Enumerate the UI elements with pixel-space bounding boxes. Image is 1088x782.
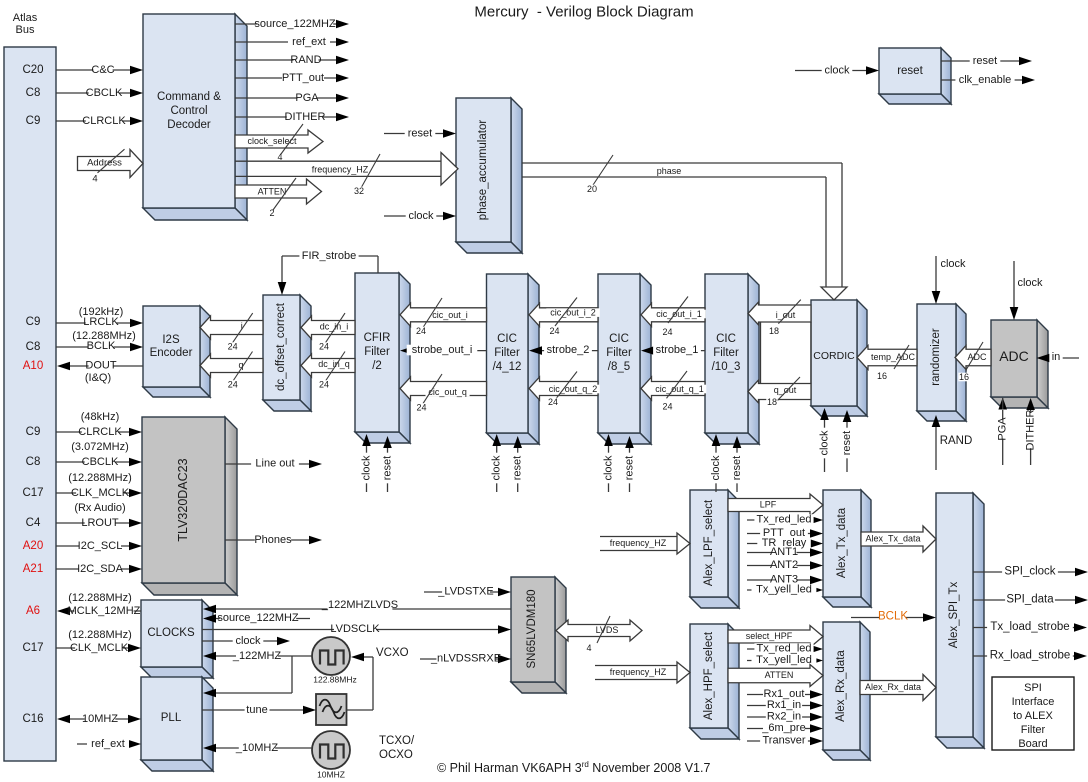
wire reset into CIC/10_3 <box>736 445 738 492</box>
bus i 24 dc_offset_correct to I2S Encoder <box>200 316 263 339</box>
wire clock into phase_accumulator <box>384 215 444 217</box>
svg-text:TCXO/: TCXO/ <box>379 735 415 747</box>
svg-text:clock_select: clock_select <box>247 136 297 146</box>
svg-text:C20: C20 <box>22 64 43 76</box>
svg-text:cic_out_q_1: cic_out_q_1 <box>655 384 704 394</box>
svg-text:LRCLK: LRCLK <box>83 316 119 328</box>
bus phase 20 phase_accumulator to CORDIC <box>522 162 842 164</box>
svg-text:reset: reset <box>512 456 524 480</box>
block U20 Alex_Rx_data <box>860 622 870 760</box>
svg-text:Alex_Rx_data: Alex_Rx_data <box>865 682 921 692</box>
svg-text:clock: clock <box>824 65 850 77</box>
svg-text:C8: C8 <box>26 87 41 99</box>
bus Address 4 into decoder <box>78 150 144 178</box>
svg-text:4: 4 <box>92 174 97 185</box>
svg-text:RAND: RAND <box>290 54 321 66</box>
svg-text:C8: C8 <box>26 456 41 468</box>
wire Rx1_out into Alex_Rx_data <box>747 694 811 696</box>
svg-text:Control: Control <box>170 105 207 117</box>
wire BCLK into Alex_SPI_Tx <box>851 617 923 619</box>
wire Tx_load_strobe output <box>973 627 1074 629</box>
wire Tx_red_led into Alex_Rx_data <box>747 648 811 650</box>
wire Transver into Alex_Rx_data <box>747 740 811 742</box>
svg-text:24: 24 <box>319 342 329 352</box>
svg-text:reset: reset <box>897 65 923 77</box>
bus frequency_HZ 32 decoder to phase_accumulator <box>235 160 441 162</box>
svg-text:temp_ADC: temp_ADC <box>871 352 916 362</box>
svg-text:reset: reset <box>841 431 853 455</box>
wire FIR_strobe from CFIR to dc_offset_correct <box>377 256 379 273</box>
svg-text:LVDSCLK: LVDSCLK <box>330 623 380 635</box>
svg-text:LROUT: LROUT <box>81 517 119 529</box>
svg-text:dc_offset_correct: dc_offset_correct <box>275 302 287 391</box>
svg-text:Interface: Interface <box>1012 696 1055 708</box>
svg-text:LVDS: LVDS <box>596 625 619 635</box>
svg-text:cic_out_i: cic_out_i <box>432 310 468 320</box>
wire strobe_out_i CIC/4_12 to CFIR <box>411 350 487 352</box>
svg-text:24: 24 <box>662 402 672 412</box>
svg-text:24: 24 <box>228 342 238 352</box>
svg-text:Alex_Rx_data: Alex_Rx_data <box>835 650 847 722</box>
block U18 Alex_Tx_data <box>861 490 871 607</box>
svg-text:I2C_SDA: I2C_SDA <box>77 563 124 575</box>
svg-text:Tx_yell_led: Tx_yell_led <box>756 654 812 666</box>
svg-text:clock: clock <box>491 455 503 481</box>
block U21 Alex_SPI_Tx <box>973 493 984 748</box>
svg-text:Filter: Filter <box>606 347 632 359</box>
svg-text:Board: Board <box>1018 738 1047 750</box>
svg-text:clock: clock <box>408 210 434 222</box>
svg-text:DOUT: DOUT <box>85 360 116 372</box>
oscillator Y2 TCXO/OCXO 10MHz <box>312 731 350 769</box>
wire SPI_clock output <box>973 571 1075 573</box>
wire _122MHZ from VCXO to CLOCKS and PLL <box>215 655 312 657</box>
svg-text:to ALEX: to ALEX <box>1013 710 1053 722</box>
svg-text:24: 24 <box>549 326 559 336</box>
svg-text:TLV320DAC23: TLV320DAC23 <box>176 458 190 541</box>
svg-text:Filter: Filter <box>1021 724 1046 736</box>
wire clock into CIC/4_12 <box>496 443 498 492</box>
wire Rx2_in into Alex_Rx_data <box>747 716 811 718</box>
wire PGA decoder output <box>235 97 336 99</box>
wire PTT_out decoder output <box>235 77 336 79</box>
svg-text:ANT2: ANT2 <box>770 559 798 571</box>
svg-text:CORDIC: CORDIC <box>813 350 855 362</box>
svg-text:BCLK: BCLK <box>87 340 116 352</box>
svg-text:clk_enable: clk_enable <box>959 74 1012 86</box>
svg-text:ATTEN: ATTEN <box>258 187 287 197</box>
wire clock into CFIR <box>366 443 368 492</box>
wire reset into phase_accumulator <box>384 133 444 135</box>
wire reset into CIC/8_5 <box>629 445 631 492</box>
svg-text:(12.288MHz): (12.288MHz) <box>68 629 132 641</box>
bus Alex_Rx_data to Alex_SPI_Tx <box>860 675 936 701</box>
bus Alex_Tx_data to Alex_SPI_Tx <box>861 526 936 552</box>
wire strobe_2 CIC/8_5 to CIC/4_12 <box>540 350 598 352</box>
svg-text:PGA: PGA <box>997 417 1009 441</box>
Atlas Bus connector strip <box>4 47 56 761</box>
wire loop filter to VCXO <box>346 709 373 711</box>
svg-text:CLOCKS: CLOCKS <box>147 627 195 639</box>
svg-text:source_122MHZ: source_122MHZ <box>217 612 299 624</box>
block U6 CFIR Filter /2 <box>399 273 410 443</box>
svg-text:clock: clock <box>235 635 261 647</box>
svg-text:DITHER: DITHER <box>285 111 326 123</box>
svg-text:Transver: Transver <box>763 735 806 747</box>
bus ATTEN 2 decoder output <box>235 179 322 204</box>
svg-text:ADC: ADC <box>999 348 1029 364</box>
block U8 CIC Filter /8_5 <box>640 274 651 444</box>
svg-text:Rx2_in: Rx2_in <box>767 711 801 723</box>
svg-text:CLRCLK: CLRCLK <box>78 426 122 438</box>
block U9 CIC Filter /10_3 <box>748 274 759 444</box>
svg-text:Filter: Filter <box>364 346 390 358</box>
svg-text:Alex_Tx_data: Alex_Tx_data <box>865 534 920 544</box>
svg-text:Tx_red_led: Tx_red_led <box>756 514 811 526</box>
svg-text:122.88MHz: 122.88MHz <box>313 675 356 685</box>
svg-text:BCLK: BCLK <box>878 611 908 623</box>
svg-text:ref_ext: ref_ext <box>91 738 125 750</box>
svg-text:source_122MHZ: source_122MHZ <box>254 18 336 30</box>
svg-text:Decoder: Decoder <box>167 119 211 131</box>
svg-text:Command &: Command & <box>157 91 221 103</box>
svg-text:A21: A21 <box>23 563 43 575</box>
block U1 Command &amp; Control Decoder <box>235 14 247 220</box>
bus clock_select 4 decoder output <box>235 130 323 153</box>
svg-text:Rx1_in: Rx1_in <box>767 699 801 711</box>
svg-text:_6m_pre: _6m_pre <box>761 722 805 734</box>
svg-text:10MHZ: 10MHZ <box>317 770 345 780</box>
svg-text:strobe_2: strobe_2 <box>547 344 590 356</box>
wire Tx_yell_led into Alex_Rx_data <box>747 660 811 662</box>
svg-text:(I&Q): (I&Q) <box>85 372 111 384</box>
wire ANT3 into Alex_Tx_data <box>747 579 811 581</box>
bus ADC 16 from ADC to randomizer <box>955 346 991 370</box>
svg-text:24: 24 <box>416 326 426 336</box>
wire RAND decoder output <box>235 59 336 61</box>
wire clock into randomizer <box>935 256 937 295</box>
wire Tx_red_led into Alex_Tx_data <box>747 519 811 521</box>
svg-text:clock: clock <box>819 430 831 456</box>
svg-text:CBCLK: CBCLK <box>86 87 123 99</box>
oscillator Y1 VCXO 122.88MHz <box>312 637 350 675</box>
svg-text:phase: phase <box>657 166 682 176</box>
svg-text:/10_3: /10_3 <box>712 361 741 373</box>
svg-text:C4: C4 <box>26 517 41 529</box>
wire LVDSCLK from CLOCKS to SN65LVDM180 <box>202 629 499 631</box>
bus cic_out_i 24 CIC/4_12 to CFIR <box>400 303 487 326</box>
svg-text:Alex_Tx_data: Alex_Tx_data <box>836 507 848 578</box>
wire Rx1_in into Alex_Rx_data <box>747 705 811 707</box>
bus frequency_HZ into Alex_LPF_select <box>600 536 677 538</box>
svg-text:24: 24 <box>228 380 238 390</box>
svg-text:C16: C16 <box>22 713 43 725</box>
svg-text:C8: C8 <box>26 341 41 353</box>
block U10 CORDIC <box>857 300 867 416</box>
svg-text:ATTEN: ATTEN <box>765 670 794 680</box>
wire _6m_pre into Alex_Rx_data <box>747 728 811 730</box>
svg-text:cic_out_i_1: cic_out_i_1 <box>656 309 702 319</box>
svg-text:C9: C9 <box>26 316 41 328</box>
svg-text:strobe_1: strobe_1 <box>656 344 699 356</box>
svg-text:I2C_SCL: I2C_SCL <box>78 540 123 552</box>
svg-text:reset: reset <box>408 128 432 140</box>
block U4 I2S Encoder <box>200 306 210 397</box>
bus q 24 dc_offset_correct to I2S Encoder <box>200 354 263 377</box>
wire clock into CIC/10_3 <box>715 443 717 492</box>
svg-text:24: 24 <box>319 380 329 390</box>
svg-text:reset: reset <box>382 456 394 480</box>
wire Rx_load_strobe output <box>973 655 1074 657</box>
wire source_122MHZ into CLOCKS <box>215 618 310 620</box>
wire ref_ext into PLL <box>77 743 129 745</box>
svg-text:Bus: Bus <box>16 24 35 36</box>
svg-text:Phones: Phones <box>254 534 292 546</box>
svg-text:2: 2 <box>269 208 274 218</box>
svg-text:18: 18 <box>769 326 779 336</box>
wire DITHER decoder output <box>235 116 336 118</box>
wire ANT2 into Alex_Tx_data <box>747 565 811 567</box>
wire clock into ADC <box>1013 261 1015 311</box>
svg-text:A10: A10 <box>23 360 43 372</box>
svg-text:LPF: LPF <box>760 500 777 510</box>
bus cic_out_q 24 CIC/4_12 to CFIR <box>400 377 487 400</box>
bus cic_out_i_2 24 CIC/8_5 to CIC/4_12 <box>529 303 598 326</box>
svg-text:© Phil Harman VK6APH 3rd Novem: © Phil Harman VK6APH 3rd November 2008 V… <box>437 760 710 776</box>
svg-text:cic_out_q_2: cic_out_q_2 <box>549 384 598 394</box>
svg-text:Tx_red_led: Tx_red_led <box>756 643 811 655</box>
wire ANT1 into Alex_Tx_data <box>747 552 811 554</box>
wire reset into CFIR <box>387 445 389 492</box>
svg-text:(3.072MHz): (3.072MHz) <box>71 441 128 453</box>
svg-text:clock: clock <box>1017 277 1043 289</box>
svg-text:reset: reset <box>624 456 636 480</box>
svg-text:_10MHZ: _10MHZ <box>235 742 278 754</box>
wire RAND into randomizer <box>935 424 937 470</box>
wire clock into CORDIC <box>824 417 826 472</box>
svg-text:10MHZ: 10MHZ <box>82 713 118 725</box>
svg-text:SPI_clock: SPI_clock <box>1004 566 1055 578</box>
svg-text:select_HPF: select_HPF <box>746 631 793 641</box>
svg-text:FIR_strobe: FIR_strobe <box>302 250 356 262</box>
wire PGA into ADC <box>1002 410 1004 465</box>
wire TR relay into Alex_Tx_data <box>747 543 811 545</box>
wire PTT out into Alex_Tx_data <box>747 533 811 535</box>
svg-text:I2S: I2S <box>162 334 180 346</box>
svg-text:/8_5: /8_5 <box>608 361 630 373</box>
wire ref_ext decoder output <box>235 41 336 43</box>
svg-text:A6: A6 <box>26 605 40 617</box>
svg-text:randomizer: randomizer <box>930 328 942 386</box>
block U15 PLL <box>202 677 213 771</box>
svg-text:32: 32 <box>354 186 364 196</box>
svg-text:in: in <box>1052 351 1061 363</box>
bus dc_in_i 24 CFIR to dc_offset_correct <box>301 316 355 339</box>
svg-text:Line out: Line out <box>255 458 294 470</box>
svg-text:4: 4 <box>586 643 591 653</box>
bus LVDS 4 bidirectional from SN65LVDM180 <box>556 620 642 641</box>
bus LPF Alex_LPF_select to Alex_Tx_data <box>728 494 823 516</box>
svg-text:C9: C9 <box>26 426 41 438</box>
wire reset into CIC/4_12 <box>517 445 519 492</box>
bus cic_out_i_1 24 CIC/10_3 to CIC/8_5 <box>641 303 705 326</box>
wire reset output of reset block <box>941 60 1019 62</box>
wire tune from PLL to loop filter <box>202 709 303 711</box>
svg-text:frequency_HZ: frequency_HZ <box>312 165 369 175</box>
wire clock into reset block <box>795 70 867 72</box>
svg-text:C17: C17 <box>22 642 43 654</box>
svg-text:CIC: CIC <box>609 333 629 345</box>
block U3 reset <box>941 48 951 104</box>
svg-text:tune: tune <box>246 704 267 716</box>
svg-text:Filter: Filter <box>713 347 739 359</box>
svg-text:cic_out_i_2: cic_out_i_2 <box>550 308 596 318</box>
svg-text:Alex_HPF_select: Alex_HPF_select <box>703 631 715 720</box>
bus q_out 18 CORDIC to CIC/10_3 <box>748 380 811 403</box>
wire _122MHZLVDS from SN65LVDM180 to CLOCKS <box>215 608 511 610</box>
svg-text:/4_12: /4_12 <box>493 361 522 373</box>
svg-text:CFIR: CFIR <box>364 332 391 344</box>
box SPI Interface to ALEX Filter Board <box>992 677 1074 750</box>
wire SPI_data output <box>973 599 1075 601</box>
wire clk_enable output of reset block <box>941 79 1022 81</box>
svg-text:(12.288MHz): (12.288MHz) <box>68 592 132 604</box>
svg-text:(Rx Audio): (Rx Audio) <box>74 502 125 514</box>
svg-text:phase_accumulator: phase_accumulator <box>477 120 489 221</box>
bus temp_ADC 16 randomizer to CORDIC <box>857 346 917 370</box>
wire strobe_1 CIC/10_3 to CIC/8_5 <box>652 350 705 352</box>
wire reset into CORDIC <box>846 419 848 472</box>
svg-text:Encoder: Encoder <box>150 347 193 359</box>
svg-text:CIC: CIC <box>716 333 736 345</box>
wire in into ADC <box>1049 357 1079 359</box>
svg-text:_122MHZLVDS: _122MHZLVDS <box>321 599 398 611</box>
wire _nLVDSSRXE into SN65LVDM180 <box>420 658 499 660</box>
block U14 CLOCKS <box>202 600 213 678</box>
svg-text:MCLK_12MHZ: MCLK_12MHZ <box>68 605 141 617</box>
svg-text:A20: A20 <box>23 540 43 552</box>
svg-text:ref_ext: ref_ext <box>292 36 326 48</box>
svg-text:_nLVDSSRXE: _nLVDSSRXE <box>430 653 501 665</box>
svg-text:RAND: RAND <box>940 435 973 447</box>
svg-text:Alex_LPF_select: Alex_LPF_select <box>703 499 715 586</box>
svg-text:20: 20 <box>587 184 597 194</box>
wire Phones from TLV320DAC23 <box>225 539 309 541</box>
svg-text:Mercury - Verilog Block Diagr: Mercury - Verilog Block Diagram <box>474 4 693 21</box>
svg-text:C17: C17 <box>22 487 43 499</box>
svg-text:DITHER: DITHER <box>1025 409 1037 450</box>
svg-text:24: 24 <box>662 327 672 337</box>
svg-text:frequency_HZ: frequency_HZ <box>610 538 667 548</box>
svg-text:cic_out_q: cic_out_q <box>428 387 467 397</box>
wire DITHER into ADC <box>1030 409 1032 465</box>
svg-text:q_out: q_out <box>774 385 797 395</box>
block U11 randomizer <box>956 304 966 421</box>
svg-text:VCXO: VCXO <box>376 647 409 659</box>
svg-text:Alex_SPI_Tx: Alex_SPI_Tx <box>948 582 960 649</box>
wire _LVDSTXE into SN65LVDM180 <box>424 591 499 593</box>
svg-text:PLL: PLL <box>161 712 182 724</box>
block U7 CIC Filter /4_12 <box>528 274 539 444</box>
svg-text:SPI: SPI <box>1024 682 1042 694</box>
svg-text:reset: reset <box>731 456 743 480</box>
wire Line out from TLV320DAC23 <box>225 463 309 465</box>
svg-text:C9: C9 <box>26 115 41 127</box>
svg-text:24: 24 <box>416 403 426 413</box>
svg-text:clock: clock <box>940 258 966 270</box>
svg-text:_122MHZ: _122MHZ <box>232 650 282 662</box>
svg-text:frequency_HZ: frequency_HZ <box>610 667 667 677</box>
bus cic_out_q_1 24 CIC/10_3 to CIC/8_5 <box>641 377 705 400</box>
svg-text:CLK_MCLK: CLK_MCLK <box>71 487 130 499</box>
svg-text:ANT1: ANT1 <box>770 546 798 558</box>
svg-text:18: 18 <box>767 397 777 407</box>
svg-text:16: 16 <box>959 372 969 382</box>
svg-text:CLK_MCLK: CLK_MCLK <box>70 642 129 654</box>
block U5 dc_offset_correct <box>300 295 311 411</box>
svg-text:(48kHz): (48kHz) <box>81 411 120 423</box>
svg-text:PGA: PGA <box>295 92 319 104</box>
svg-text:C&C: C&C <box>91 64 114 76</box>
svg-text:_LVDSTXE: _LVDSTXE <box>437 586 493 598</box>
svg-text:Rx_load_strobe: Rx_load_strobe <box>990 650 1071 662</box>
svg-text:CLRCLK: CLRCLK <box>82 115 126 127</box>
bus frequency_HZ into Alex_HPF_select <box>595 665 677 667</box>
svg-text:ADC: ADC <box>967 352 987 362</box>
svg-text:PTT_out: PTT_out <box>282 72 324 84</box>
filter F1 loop filter <box>316 694 347 725</box>
svg-text:Tx_yell_led: Tx_yell_led <box>756 584 812 596</box>
block U2 phase_accumulator <box>511 98 522 253</box>
bus ATTEN Alex_HPF_select to Alex_Rx_data <box>728 665 823 687</box>
bus cic_out_q_2 24 CIC/8_5 to CIC/4_12 <box>529 377 598 400</box>
svg-text:24: 24 <box>548 397 558 407</box>
svg-text:clock: clock <box>361 455 373 481</box>
svg-text:clock: clock <box>603 455 615 481</box>
wire Tx_yell_led into Alex_Tx_data <box>747 589 811 591</box>
svg-text:CIC: CIC <box>497 333 517 345</box>
svg-text:Filter: Filter <box>494 347 520 359</box>
bus select_HPF Alex_HPF_select to Alex_Rx_data <box>728 626 823 648</box>
svg-text:/2: /2 <box>372 360 382 372</box>
svg-text:OCXO: OCXO <box>379 749 413 761</box>
block U13 TLV320DAC23 <box>225 417 237 595</box>
svg-text:CBCLK: CBCLK <box>82 456 119 468</box>
block U16 SN65LVDM180 <box>555 577 566 693</box>
svg-text:(12.288MHz): (12.288MHz) <box>68 472 132 484</box>
bus junction verticals between i_out and q_out <box>760 322 762 384</box>
svg-text:reset: reset <box>973 55 997 67</box>
wire clock output of CLOCKS <box>202 640 277 642</box>
svg-text:Atlas: Atlas <box>13 12 38 24</box>
block U12 ADC <box>1037 320 1048 408</box>
svg-text:16: 16 <box>877 371 887 381</box>
wire clock into CIC/8_5 <box>608 443 610 492</box>
svg-text:clock: clock <box>710 455 722 481</box>
bus i_out 18 CORDIC to CIC/10_3 <box>748 302 811 325</box>
wire source_122MHZ decoder output <box>235 23 336 25</box>
bus dc_in_q 24 CFIR to dc_offset_correct <box>301 354 355 377</box>
svg-text:4: 4 <box>277 152 282 162</box>
svg-text:strobe_out_i: strobe_out_i <box>412 344 473 356</box>
block U17 Alex_LPF_select <box>728 490 739 608</box>
svg-text:SPI_data: SPI_data <box>1006 594 1054 606</box>
svg-text:Tx_load_strobe: Tx_load_strobe <box>990 621 1069 633</box>
block U19 Alex_HPF_select <box>728 624 739 739</box>
wire _10MHZ from TCXO to PLL <box>215 747 312 749</box>
svg-text:SN65LVDM180: SN65LVDM180 <box>526 589 538 668</box>
